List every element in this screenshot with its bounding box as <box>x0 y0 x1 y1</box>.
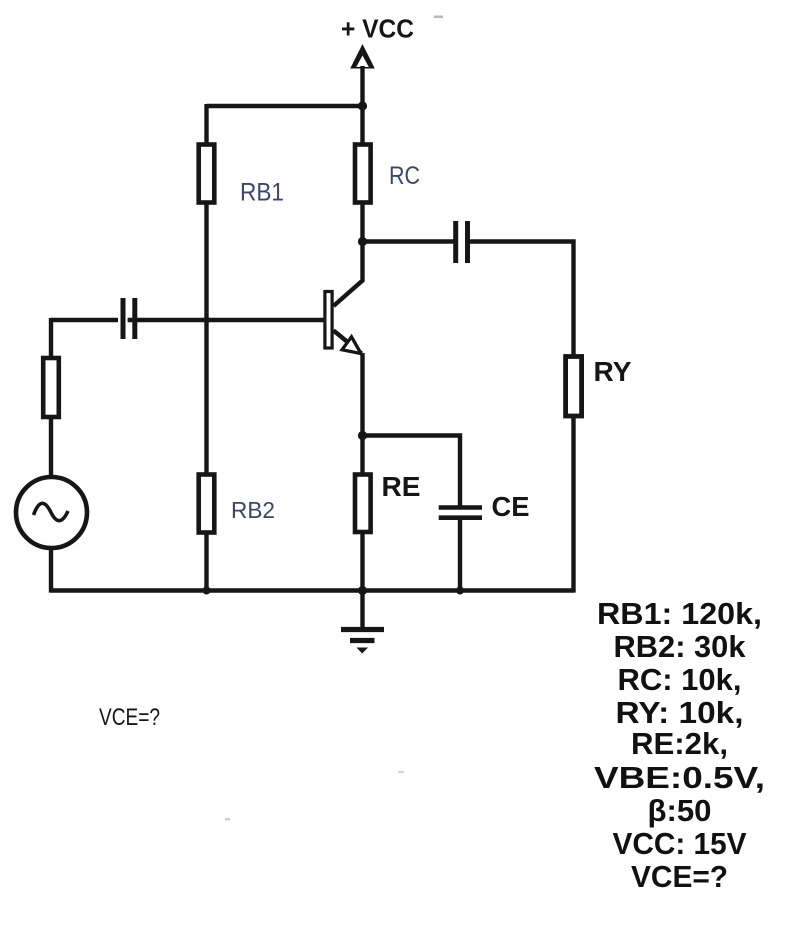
ground symbol <box>341 591 384 654</box>
wire VCC vertical to RC <box>360 66 364 143</box>
wire RY to bottom rail <box>571 416 575 593</box>
wire RB1 branch down <box>204 104 208 144</box>
resistor RB2 <box>199 475 215 533</box>
svg-text:RY: 10k,: RY: 10k, <box>616 696 744 730</box>
wire RC to collector <box>360 202 364 243</box>
wire collector to output capacitor <box>363 239 454 243</box>
svg-text:RE:2k,: RE:2k, <box>631 727 728 761</box>
capacitor output coupling <box>456 221 468 263</box>
capacitor input coupling <box>118 298 135 339</box>
svg-text:VCC: 15V: VCC: 15V <box>613 827 748 861</box>
wire source to bottom rail <box>49 548 53 593</box>
wire RB1 to base node <box>204 202 208 475</box>
transistor Q1 base bar <box>325 292 332 349</box>
wire CE to bottom rail <box>458 518 462 593</box>
resistor RB1 <box>199 145 215 203</box>
wire bottom rail <box>51 588 574 592</box>
wire base horizontal <box>51 318 325 322</box>
svg-text:VCE=?: VCE=? <box>631 860 728 894</box>
resistor RS source <box>43 358 59 417</box>
node CE bottom junction <box>456 587 464 595</box>
svg-text:RC: 10k,: RC: 10k, <box>618 663 742 697</box>
svg-text:RB1: RB1 <box>240 179 284 207</box>
svg-text:VCE=?: VCE=? <box>99 704 160 731</box>
node RB2 bottom junction <box>203 587 211 595</box>
node RE bottom junction <box>358 586 367 595</box>
transistor Q1 emitter arrowhead <box>342 337 361 354</box>
svg-text:β:50: β:50 <box>648 794 712 828</box>
artifact faint dot mid <box>398 771 404 773</box>
wire emitter to CE branch <box>363 436 461 508</box>
svg-text:RC: RC <box>389 162 420 190</box>
resistor RE <box>355 475 371 533</box>
node VCC junction <box>358 101 367 110</box>
source VS sine generator <box>16 477 87 548</box>
wire RS to source <box>49 416 53 477</box>
wire RE to bottom rail <box>360 531 364 593</box>
resistor RC <box>355 145 371 203</box>
artifact faint dot left <box>225 818 230 820</box>
svg-text:RB2: 30k: RB2: 30k <box>614 630 746 664</box>
power +VCC symbol arrow <box>350 44 375 69</box>
wire top horizontal to RB1 branch <box>207 104 363 108</box>
svg-text:RY: RY <box>594 356 632 387</box>
wire output capacitor to RY branch <box>470 242 574 358</box>
wire emitter down to RE <box>360 353 364 475</box>
svg-text:+ VCC: + VCC <box>341 16 414 44</box>
node collector junction <box>358 237 367 246</box>
svg-text:CE: CE <box>492 491 530 522</box>
resistor RY <box>566 357 582 417</box>
svg-text:RE: RE <box>382 471 421 502</box>
parameter list text block <box>594 597 765 894</box>
svg-text:RB2: RB2 <box>231 497 275 523</box>
wire RB2 to bottom rail <box>204 532 208 593</box>
node base / RB junction <box>203 317 210 324</box>
capacitor CE bypass <box>439 508 482 518</box>
wire source branch upper <box>49 318 53 358</box>
transistor Q1 collector lead <box>334 240 363 306</box>
artifact faint mark top <box>434 16 443 19</box>
transistor Q1 emitter lead <box>334 331 363 354</box>
node emitter junction <box>358 431 367 440</box>
svg-text:RB1: 120k,: RB1: 120k, <box>597 597 762 631</box>
svg-text:VBE:0.5V,: VBE:0.5V, <box>594 761 765 795</box>
